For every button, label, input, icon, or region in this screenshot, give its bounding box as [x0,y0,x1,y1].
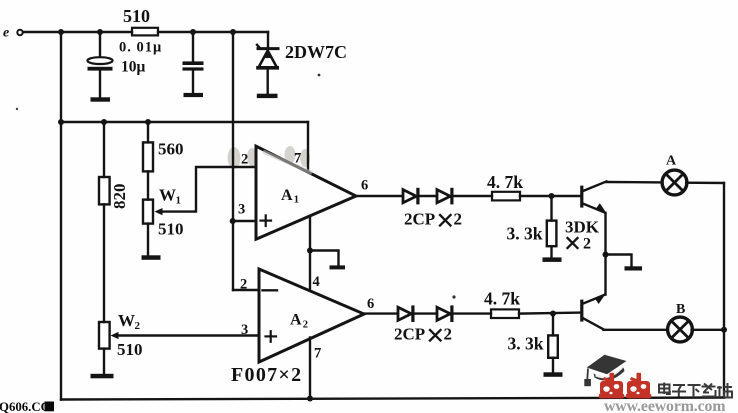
transistor Q1 3DK upper [565,181,607,252]
diode D3 (2CP) [398,305,415,322]
wire to A1 pin7 [307,122,309,172]
node filter cap branch [190,29,196,35]
wire to 4.7k upper [454,195,493,197]
resistor 3.3k lower [508,314,558,373]
wire left rail vertical [60,32,62,400]
resistor 4.7k upper [487,172,523,200]
wire second rail [61,121,308,123]
scan speck near 2DW7C [318,74,321,77]
first chong [599,373,625,399]
node zener branch [230,29,236,35]
eeworm logo graduation cap [584,355,626,387]
op-amp A2 [231,269,374,386]
smudge streak over A1 top edge [263,152,312,174]
resistor 560 [143,122,184,200]
eeworm logo gray site name [659,383,732,398]
wire A2 output [364,312,398,314]
svg-text:3: 3 [241,322,248,338]
svg-text:3: 3 [238,202,245,218]
svg-text:6: 6 [361,178,368,194]
zener diode 2DW7C [257,42,347,94]
wire between lower diodes [415,312,438,314]
wire bottom rail [61,398,724,400]
node 10u cap branch [97,29,103,35]
ground below 3.3k lower [544,372,563,377]
node 3.3k upper tap [549,193,555,199]
watermark Q606.COM [0,400,54,413]
wire Q1 collector to lamp A [607,181,663,184]
svg-text:A: A [290,312,302,329]
svg-text:3. 3k: 3. 3k [508,334,544,354]
value label x2 [568,236,592,253]
wire 4.7k to Q1 base [520,195,581,197]
plus sign A1 pin3 [261,220,272,222]
svg-text:3DK: 3DK [565,218,600,237]
resistor 3.3k upper [507,196,557,257]
node pin7 on bottom rail [307,396,313,402]
svg-text:1: 1 [294,195,299,206]
svg-text:2: 2 [240,277,247,293]
svg-text:1: 1 [176,195,182,207]
wire to 4.7k lower [454,312,492,314]
eeworm logo red characters [599,373,652,399]
svg-text:3. 3k: 3. 3k [507,224,543,244]
node between op-amps [307,248,313,254]
lamp A [662,154,687,195]
svg-text:2DW7C: 2DW7C [285,42,347,62]
svg-text:W: W [118,311,135,330]
svg-text:4. 7k: 4. 7k [484,289,520,309]
ground below W2 [91,374,114,379]
resistor 820 [99,122,129,322]
lamp B [668,302,693,342]
wire top rail right of resistor [158,31,268,33]
ground below 10u [91,97,111,101]
svg-text:2: 2 [135,320,141,332]
svg-text:4. 7k: 4. 7k [487,172,523,192]
svg-text:B: B [676,302,685,317]
svg-text:e: e [3,26,9,41]
transistor Q2 3DK lower [580,294,606,330]
svg-text:2: 2 [583,236,591,253]
node 3.3k lower tap [550,311,556,317]
svg-text:510: 510 [123,6,150,26]
scan speck left [16,108,18,110]
ground stub between op-amps [310,251,345,270]
wire between diodes [420,195,438,197]
wire into A1 pin3 [233,220,256,222]
white holes in chong glyphs [603,384,646,394]
wire reference vertical to pins [232,32,234,290]
svg-text:510: 510 [117,340,143,359]
wire into A2 pin2 [233,289,259,291]
ground stub at emitters [606,255,643,271]
svg-text:560: 560 [158,140,184,159]
svg-text:A: A [281,187,293,204]
node A1 pin3 tap [230,218,236,224]
diode D2 (2CP) [437,188,454,205]
wire W2 wiper to A2 pin3 [116,334,259,336]
ground below W1 [142,255,161,259]
svg-text:2: 2 [454,210,463,229]
resistor 510 (series input) [123,6,158,35]
capacitor 0.01u [183,32,204,93]
svg-text:10μ: 10μ [121,59,146,76]
wire A2 pin7 to bottom rail [309,338,311,399]
wire right rail [723,183,725,398]
svg-text:2: 2 [241,152,248,168]
wire Q2 collector to lamp B [604,329,668,331]
node at e / left rail junction [58,29,64,35]
svg-text:2CP: 2CP [394,325,425,344]
correction smudge marks near A1 (behind ink) [228,146,311,169]
wire to zener [267,32,269,47]
potentiometer W1 510 [143,186,184,255]
op-amp A1 [238,146,368,239]
svg-text:www.eeworm.com: www.eeworm.com [604,398,725,413]
svg-text:0. 01μ: 0. 01μ [119,40,162,56]
svg-text:2: 2 [303,320,308,331]
scan speck near lower diodes [452,295,455,298]
potentiometer W2 510 [99,311,143,374]
diode D1 (2CP) [403,188,420,205]
node shared emitters [603,252,609,258]
wire top rail left [23,31,132,33]
resistor 4.7k lower [484,289,520,319]
label 2CP x2 lower [394,325,452,344]
input terminal e [3,26,23,41]
label 2CP x2 upper [404,210,462,229]
node lamp B / right rail [721,327,727,333]
ground below 3.3k upper [543,257,562,262]
svg-text:Q606.CO: Q606.CO [0,400,51,413]
wire lamp A to right rail [686,181,724,184]
wire W1 wiper to A1 pin2 [160,167,256,212]
wire A1 pin4 down to A2 [309,217,311,292]
diode D4 (2CP) [437,305,454,322]
svg-text:4: 4 [313,274,320,290]
svg-text:510: 510 [158,220,184,239]
svg-text:W: W [159,186,176,205]
svg-text:A: A [666,154,677,169]
wire shared emitter vertical [604,213,606,295]
minus sign A2 pin2 [263,289,278,291]
capacitor 10u (electrolytic) [87,32,162,97]
svg-text:6: 6 [367,296,374,312]
wire 4.7k to Q2 base [519,313,581,314]
svg-text:2CP: 2CP [404,210,435,229]
ground below zener [257,94,278,98]
svg-text:820: 820 [110,184,129,210]
node 820 branch [101,119,107,125]
node 560 branch [145,119,151,125]
svg-text:2: 2 [444,325,453,344]
svg-text:7: 7 [314,346,321,362]
ground below 0.01u [184,93,204,97]
node second rail left [58,119,64,125]
wire lamp B to right rail [692,329,724,331]
wire A1 output [356,195,403,197]
second chong [626,373,652,399]
plus sign A2 pin3 [266,335,277,337]
svg-text:F007×2: F007×2 [231,364,302,386]
